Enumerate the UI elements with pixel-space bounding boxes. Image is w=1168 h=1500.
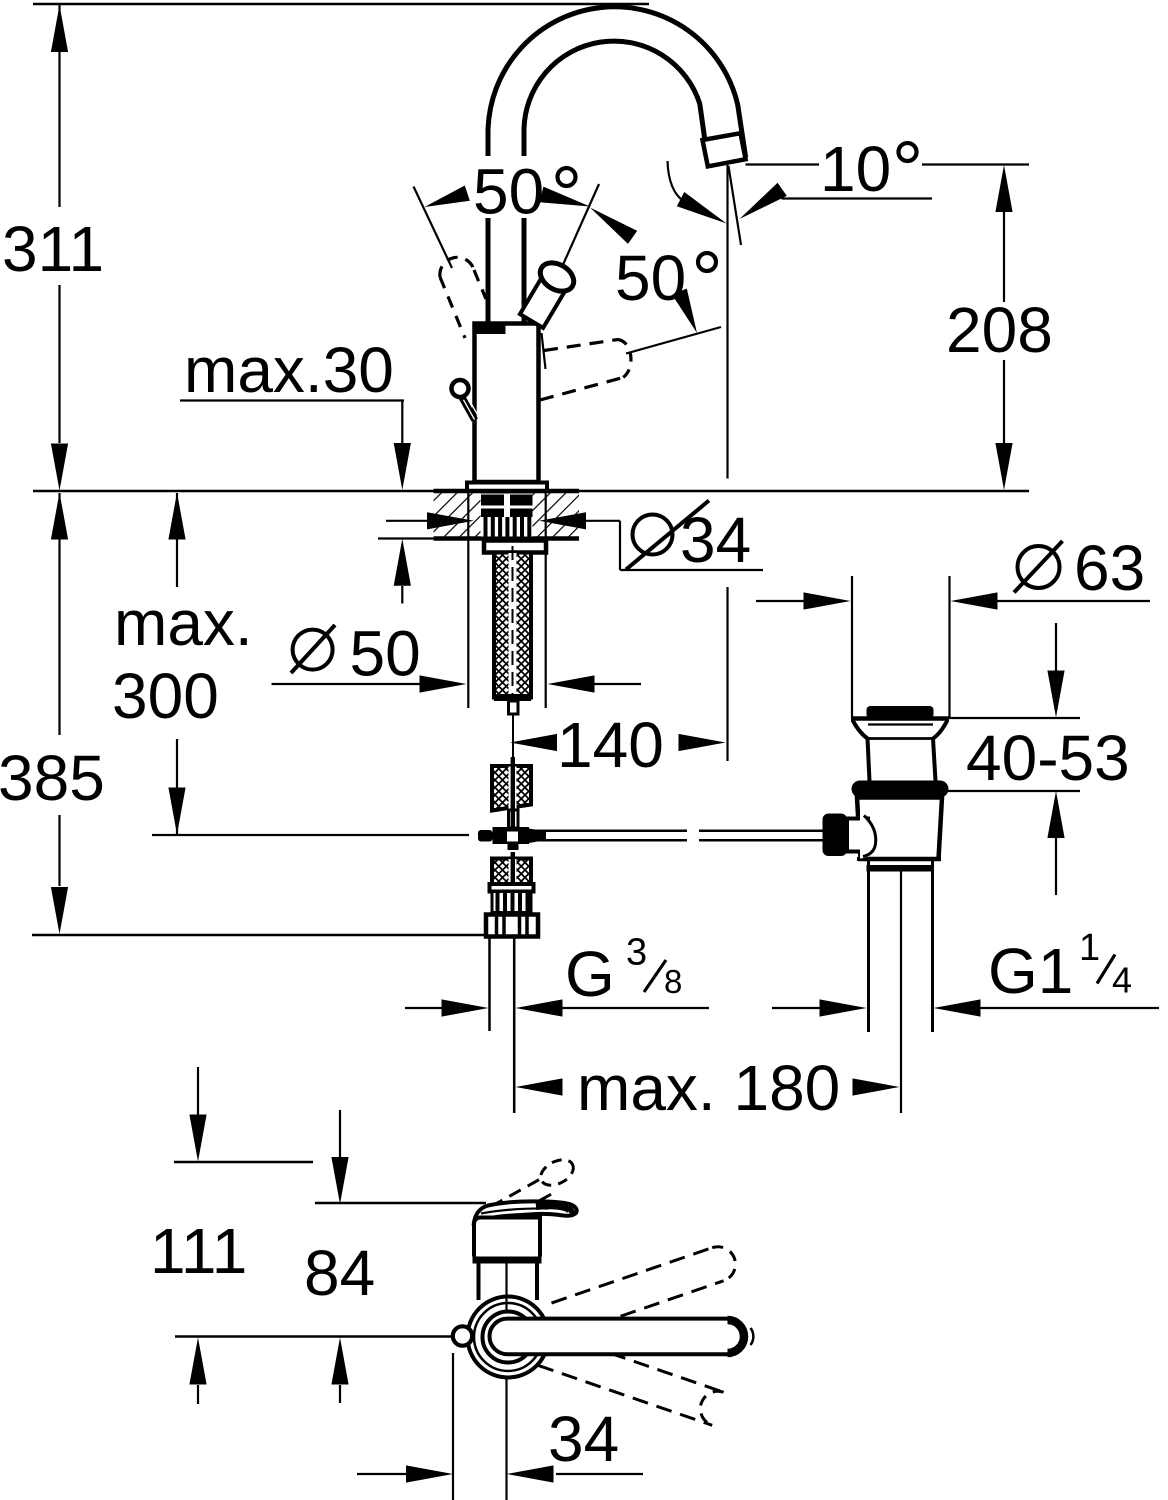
svg-text:140: 140	[557, 709, 664, 781]
svg-text:max. 180: max. 180	[577, 1052, 840, 1124]
svg-text:34: 34	[548, 1403, 619, 1475]
svg-text:8: 8	[664, 963, 682, 1000]
svg-text:50: 50	[350, 618, 421, 690]
svg-text:208: 208	[946, 294, 1053, 366]
svg-text:3: 3	[626, 932, 647, 974]
svg-text:40-53: 40-53	[966, 722, 1130, 794]
svg-text:63: 63	[1074, 532, 1145, 604]
svg-text:84: 84	[304, 1237, 375, 1309]
svg-text:111: 111	[150, 1215, 247, 1287]
svg-text:34: 34	[680, 504, 751, 576]
svg-text:max.: max.	[114, 587, 253, 659]
svg-text:300: 300	[112, 660, 219, 732]
svg-text:G: G	[565, 938, 615, 1010]
svg-text:10: 10	[820, 133, 891, 205]
svg-text:311: 311	[2, 213, 104, 285]
svg-text:50: 50	[615, 242, 686, 314]
svg-text:385: 385	[0, 742, 105, 814]
svg-text:4: 4	[1112, 960, 1132, 1001]
svg-text:G1: G1	[988, 935, 1073, 1007]
svg-text:50: 50	[473, 156, 544, 228]
svg-text:max.30: max.30	[184, 334, 394, 406]
svg-text:1: 1	[1079, 927, 1100, 969]
